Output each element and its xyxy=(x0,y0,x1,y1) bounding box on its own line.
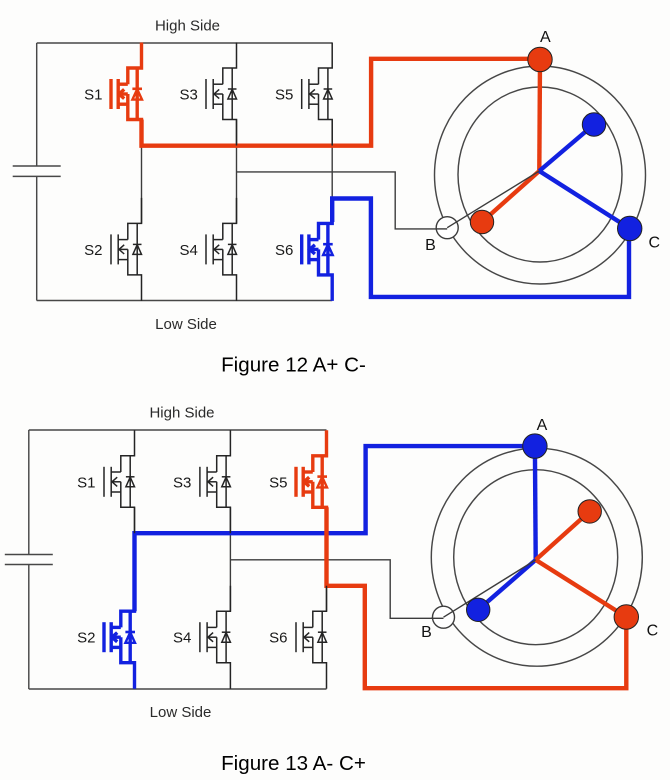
transistor S3 xyxy=(206,43,237,146)
rotor pole line lower-left (blue) fig13 xyxy=(478,560,536,610)
wire phase C node fig13 xyxy=(326,586,328,611)
svg-text:S4: S4 xyxy=(179,242,197,259)
winding phase B line (thin) fig12 xyxy=(447,171,539,228)
wire phase A to terminal A (red) fig12 xyxy=(142,59,536,146)
wire phase A node fig13 xyxy=(134,507,136,533)
rotor dot lower-left fig13 xyxy=(467,598,490,621)
motor stator outer circle fig12 xyxy=(435,66,646,284)
wire left rail upper fig12 xyxy=(36,43,38,166)
wire left rail upper fig13 xyxy=(28,430,30,555)
wire phase B to terminal B fig12 xyxy=(237,172,448,229)
transistor S6 fig13 xyxy=(296,586,327,689)
svg-text:S5: S5 xyxy=(275,87,293,104)
rotor pole line lower-left (red) fig12 xyxy=(482,171,539,222)
winding phase A line (blue) fig13 xyxy=(533,447,538,560)
transistor S5 fig13 xyxy=(296,430,327,533)
svg-text:S2: S2 xyxy=(77,630,95,647)
wire left rail lower fig13 xyxy=(28,565,30,690)
terminal B circle fig12 xyxy=(436,217,458,239)
wire phase C to terminal C (red) fig13 xyxy=(327,507,627,688)
svg-text:C: C xyxy=(647,623,659,640)
svg-text:S5: S5 xyxy=(269,474,287,491)
svg-text:Low Side: Low Side xyxy=(150,704,212,721)
svg-text:Figure 12 A+ C-: Figure 12 A+ C- xyxy=(221,354,366,377)
svg-text:S1: S1 xyxy=(77,474,95,491)
svg-text:A: A xyxy=(540,29,551,46)
wire top rail fig12 xyxy=(37,42,333,44)
svg-text:A: A xyxy=(537,417,548,434)
wire phase B to terminal B fig13 xyxy=(230,560,443,619)
rotor dot upper-right fig13 xyxy=(578,500,601,523)
wire phase B node fig12 xyxy=(236,120,238,224)
winding phase B line (thin) fig13 xyxy=(444,560,536,617)
wire phase B node fig13 xyxy=(229,507,231,611)
motor stator outer circle fig13 xyxy=(431,448,642,666)
wire bottom rail fig13 xyxy=(29,688,327,690)
rotor dot lower-left fig12 xyxy=(470,210,493,233)
wire bottom rail fig12 xyxy=(37,300,333,302)
winding phase C line (blue) fig12 xyxy=(539,171,629,229)
terminal C dot fig12 xyxy=(618,216,642,240)
wire phase C to terminal C (blue) fig12 xyxy=(332,199,629,297)
svg-text:S3: S3 xyxy=(173,474,191,491)
capacitor C (fig13) xyxy=(5,555,53,565)
svg-text:Low Side: Low Side xyxy=(155,316,217,333)
transistor S1 xyxy=(111,43,142,146)
svg-text:S1: S1 xyxy=(84,87,102,104)
terminal A dot fig12 xyxy=(528,47,552,71)
svg-text:S3: S3 xyxy=(179,87,197,104)
terminal B circle fig13 xyxy=(433,606,455,628)
rotor dot upper-right fig12 xyxy=(582,113,605,136)
wire tail into terminal B fig12 xyxy=(436,228,447,230)
wire phase A node fig12 xyxy=(141,146,143,224)
transistor S1 fig13 xyxy=(104,430,135,533)
svg-text:B: B xyxy=(425,237,436,254)
svg-text:S4: S4 xyxy=(173,630,191,647)
transistor S4 fig13 xyxy=(200,586,231,689)
transistor S3 fig13 xyxy=(200,430,231,533)
wire phase C node fig12 xyxy=(331,120,333,199)
transistor S2 xyxy=(111,198,142,301)
transistor S6 xyxy=(302,198,333,301)
rotor pole line upper-right (blue) fig12 xyxy=(539,125,593,171)
svg-text:C: C xyxy=(649,235,661,252)
svg-text:High Side: High Side xyxy=(149,405,214,422)
svg-text:S6: S6 xyxy=(269,630,287,647)
svg-text:B: B xyxy=(421,624,432,641)
svg-text:High Side: High Side xyxy=(155,18,220,35)
winding phase C line (red) fig13 xyxy=(536,560,627,617)
wire top rail fig13 xyxy=(29,429,327,431)
transistor S4 xyxy=(206,198,237,301)
rotor pole line upper-right (red) fig13 xyxy=(536,511,590,560)
wire tail into terminal B fig13 xyxy=(431,617,444,619)
capacitor C (fig12) xyxy=(13,166,61,176)
winding phase A line (red) fig12 xyxy=(537,60,542,171)
svg-text:S6: S6 xyxy=(275,242,293,259)
wire left rail lower fig12 xyxy=(36,176,38,300)
svg-text:S2: S2 xyxy=(84,242,102,259)
terminal A dot fig13 xyxy=(523,434,547,458)
transistor S2 fig13 xyxy=(104,586,135,689)
transistor S5 xyxy=(302,43,333,146)
motor stator inner circle fig13 xyxy=(454,470,618,645)
terminal C dot fig13 xyxy=(614,605,638,629)
wire phase A to terminal A (blue) fig13 xyxy=(135,446,531,611)
svg-text:Figure 13 A- C+: Figure 13 A- C+ xyxy=(221,752,366,775)
motor stator inner circle fig12 xyxy=(458,87,622,262)
